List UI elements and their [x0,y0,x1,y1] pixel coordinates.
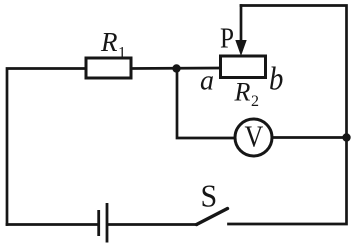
svg-text:b: b [269,62,283,98]
svg-text:P: P [220,23,234,55]
svg-text:V: V [245,119,264,154]
svg-text:1: 1 [118,45,126,62]
svg-text:a: a [200,66,214,97]
svg-text:R: R [234,78,251,107]
svg-text:S: S [201,179,218,214]
svg-text:2: 2 [251,93,259,110]
svg-text:R: R [100,27,118,57]
